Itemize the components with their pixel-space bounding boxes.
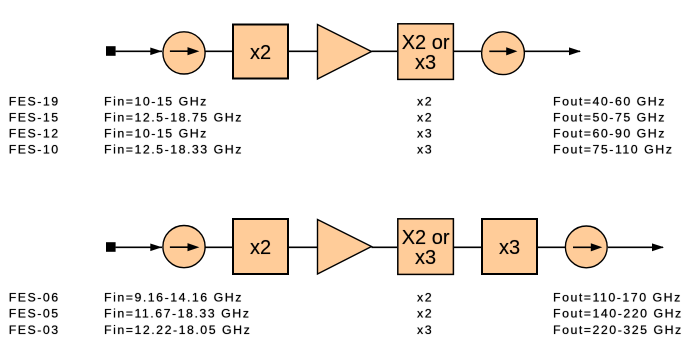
- wire amplifier to multiplier (bottom): [372, 246, 398, 248]
- wire isolator to x2 (top): [205, 50, 232, 52]
- table row FES-10: [9, 143, 674, 157]
- svg-text:X2 or: X2 or: [402, 32, 450, 54]
- arrowhead on input wire (top): [150, 48, 162, 56]
- svg-text:x2: x2: [250, 237, 271, 259]
- svg-text:FES-12: FES-12: [9, 127, 60, 141]
- svg-text:FES-19: FES-19: [9, 95, 60, 109]
- isolator circle (bottom input): [163, 226, 205, 268]
- svg-text:FES-10: FES-10: [9, 143, 60, 157]
- svg-text:x3: x3: [499, 237, 520, 259]
- svg-text:FES-15: FES-15: [9, 111, 60, 125]
- svg-text:x2: x2: [417, 111, 433, 125]
- output arrowhead (bottom): [652, 243, 664, 251]
- isolator circle (top output): [482, 32, 525, 75]
- wire isolator to x2 (bottom): [205, 246, 232, 248]
- wire multiplier to x3 (bottom): [454, 246, 482, 248]
- wire amplifier to multiplier (top): [372, 50, 398, 52]
- svg-text:Fout=75-110 GHz: Fout=75-110 GHz: [553, 143, 673, 157]
- svg-text:x3: x3: [417, 143, 433, 157]
- svg-text:x3: x3: [415, 52, 436, 74]
- multiplier block X2 or x3 (top): [398, 24, 454, 80]
- svg-text:x2: x2: [250, 42, 271, 64]
- isolator arrow symbol (bottom input): [170, 246, 189, 248]
- amplifier triangle (bottom): [318, 220, 372, 275]
- arrowhead on input wire (bottom): [150, 244, 162, 252]
- multiplier block X2 or x3 (bottom): [398, 219, 454, 275]
- output wire (top): [525, 50, 581, 52]
- isolator circle (bottom output): [565, 226, 607, 268]
- svg-text:Fout=220-325 GHz: Fout=220-325 GHz: [553, 323, 683, 337]
- wire multiplier to output isolator (top): [454, 50, 482, 52]
- isolator arrow symbol (top input): [170, 50, 189, 52]
- doubler block x2 (bottom): [233, 219, 288, 274]
- amplifier triangle (top): [318, 25, 372, 80]
- tripler block x3 (bottom): [482, 219, 537, 274]
- doubler block x2 (top): [233, 25, 288, 79]
- table row FES-15: [9, 111, 666, 125]
- svg-text:x2: x2: [417, 307, 433, 321]
- input port square (bottom chain): [106, 242, 116, 252]
- table row FES-05: [9, 307, 683, 321]
- output wire (bottom): [608, 246, 663, 248]
- table row FES-19: [9, 95, 666, 109]
- table row FES-03: [9, 323, 683, 337]
- svg-text:FES-06: FES-06: [9, 290, 60, 304]
- wire input to isolator (bottom): [116, 246, 162, 248]
- svg-text:FES-05: FES-05: [9, 307, 60, 321]
- bottom chain: [106, 219, 664, 275]
- top chain: [106, 24, 581, 80]
- svg-text:X2 or: X2 or: [402, 227, 450, 249]
- svg-text:x3: x3: [417, 127, 433, 141]
- svg-text:FES-03: FES-03: [9, 323, 60, 337]
- wire x2 to amplifier (bottom): [289, 246, 317, 248]
- svg-text:x2: x2: [417, 95, 433, 109]
- svg-text:Fout=60-90 GHz: Fout=60-90 GHz: [553, 127, 666, 141]
- table row FES-12: [9, 127, 666, 141]
- isolator circle (top input): [163, 32, 205, 74]
- wire x2 to amplifier (top): [289, 50, 317, 52]
- svg-text:Fout=50-75 GHz: Fout=50-75 GHz: [553, 111, 666, 125]
- svg-text:Fin=11.67-18.33 GHz: Fin=11.67-18.33 GHz: [104, 307, 250, 321]
- wire input to isolator (top): [116, 50, 162, 52]
- svg-text:x2: x2: [417, 290, 433, 304]
- svg-text:x3: x3: [417, 323, 433, 337]
- svg-text:Fin=12.5-18.75 GHz: Fin=12.5-18.75 GHz: [104, 111, 243, 125]
- svg-text:x3: x3: [415, 247, 436, 269]
- isolator arrow symbol (bottom output): [573, 246, 591, 248]
- table row FES-06: [9, 290, 682, 304]
- svg-text:Fout=110-170 GHz: Fout=110-170 GHz: [553, 290, 682, 304]
- isolator arrow symbol (top output): [489, 50, 507, 52]
- svg-text:Fout=40-60 GHz: Fout=40-60 GHz: [553, 95, 666, 109]
- wire x3 to output isolator (bottom): [538, 246, 565, 248]
- svg-text:Fin=12.22-18.05 GHz: Fin=12.22-18.05 GHz: [104, 323, 251, 337]
- svg-text:Fout=140-220 GHz: Fout=140-220 GHz: [553, 307, 683, 321]
- svg-text:Fin=12.5-18.33 GHz: Fin=12.5-18.33 GHz: [104, 143, 243, 157]
- svg-text:Fin=10-15 GHz: Fin=10-15 GHz: [104, 127, 208, 141]
- output arrowhead (top): [569, 47, 581, 55]
- svg-text:Fin=10-15 GHz: Fin=10-15 GHz: [104, 95, 208, 109]
- svg-text:Fin=9.16-14.16 GHz: Fin=9.16-14.16 GHz: [104, 290, 243, 304]
- input port square (top chain): [106, 46, 116, 56]
